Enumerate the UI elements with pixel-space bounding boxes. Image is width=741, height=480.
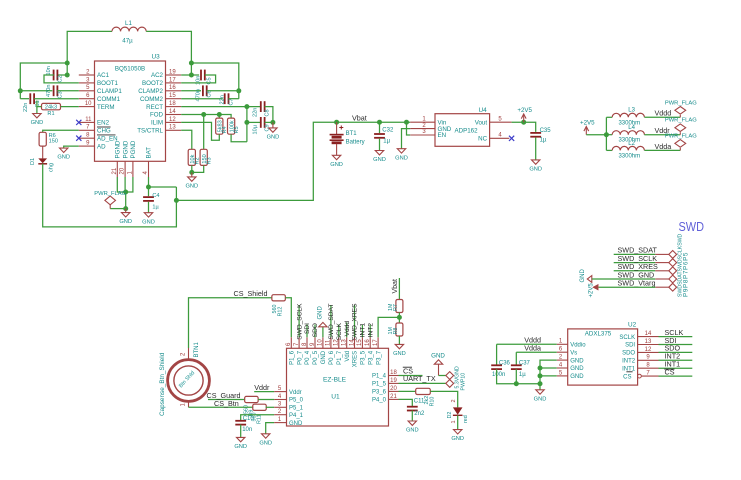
svg-text:470n: 470n: [196, 89, 202, 101]
svg-text:P1_5: P1_5: [372, 382, 387, 388]
wire UART_TX: [399, 382, 446, 384]
ground U4: [397, 149, 405, 154]
wire C6 to AC2 net: [207, 90, 239, 92]
junction Vout: [521, 120, 526, 125]
svg-text:R11: R11: [257, 415, 263, 425]
svg-text:GND: GND: [393, 351, 406, 357]
svg-text:COMM2: COMM2: [140, 96, 164, 103]
PWR_FLAG flag Vddd: [675, 107, 686, 118]
svg-text:C32: C32: [382, 128, 394, 134]
wire PWR_FLAG to gnd: [110, 208, 126, 210]
svg-text:U4: U4: [479, 107, 488, 114]
svg-text:EN: EN: [438, 132, 447, 139]
svg-text:Vs: Vs: [570, 350, 577, 356]
wire Vbat to C32: [379, 122, 381, 133]
U1 pin 6 P1_6: [290, 337, 292, 348]
svg-text:C10: C10: [243, 416, 255, 422]
ground R2 R3: [188, 172, 196, 181]
U1 pin 15 P3_5: [361, 337, 363, 348]
svg-text:P4_0: P4_0: [372, 398, 387, 404]
svg-text:CS_Shield: CS_Shield: [234, 289, 268, 298]
svg-text:SWD: SWD: [679, 219, 705, 234]
svg-text:18: 18: [390, 370, 397, 376]
svg-text:1µ: 1µ: [383, 139, 390, 145]
svg-text:C3: C3: [58, 91, 64, 98]
svg-text:GND: GND: [451, 436, 464, 442]
U4 pin 4 NC: [490, 137, 510, 139]
svg-text:1: 1: [451, 420, 457, 423]
wire CS net: [659, 375, 693, 377]
svg-text:3300hm: 3300hm: [618, 153, 640, 159]
junction rails: [604, 132, 609, 137]
svg-text:16: 16: [169, 85, 176, 91]
wire SWD_SCLK: [298, 305, 300, 337]
wire Vddd: [346, 323, 348, 338]
resistor R5: [228, 118, 235, 134]
BTN1 pin 2: [188, 348, 190, 360]
svg-text:C7: C7: [229, 98, 235, 105]
svg-text:GND: GND: [431, 353, 445, 360]
U3 pin 16 CLAMP2: [166, 90, 182, 92]
svg-text:L3: L3: [628, 108, 635, 114]
capacitor C35: [530, 133, 541, 137]
svg-text:U3: U3: [152, 54, 161, 61]
svg-text:12: 12: [645, 347, 652, 353]
svg-text:Vdda: Vdda: [524, 344, 541, 353]
svg-text:17: 17: [373, 339, 379, 346]
svg-text:2: 2: [451, 399, 457, 402]
svg-text:XRES: XRES: [353, 351, 359, 367]
testpoint P6 SWD_GND: [669, 275, 677, 283]
wire C7 to AC2 net: [229, 98, 239, 100]
wire RECT rail: [181, 106, 261, 108]
wire to C3: [20, 90, 52, 92]
junction PGND: [123, 190, 128, 195]
svg-text:UART_TX: UART_TX: [403, 374, 436, 383]
svg-text:C37: C37: [519, 361, 531, 367]
wire C2 to BOOT1: [44, 75, 79, 83]
svg-text:13: 13: [169, 125, 176, 131]
svg-text:TS/CTRL: TS/CTRL: [137, 128, 163, 135]
wire Vbat rail: [337, 121, 411, 123]
svg-text:BT1: BT1: [346, 131, 358, 137]
wire L1 to AC2: [146, 31, 191, 75]
svg-text:P1_6: P1_6: [290, 350, 296, 365]
ground above U1 pin 10: [319, 322, 327, 326]
wire R9 to P5_0: [258, 399, 274, 401]
testpoint pin SWD_SCLK: [655, 262, 669, 264]
svg-text:Vddr: Vddr: [254, 383, 270, 392]
wire PGND bus: [117, 177, 133, 192]
svg-text:BAT: BAT: [146, 147, 153, 159]
svg-text:BOOT1: BOOT1: [97, 80, 119, 87]
svg-text:GND: GND: [580, 269, 586, 283]
U1 pin 8 P0_4: [306, 337, 308, 348]
wire INT1: [361, 325, 363, 338]
testpoint pin SWD_SDAT: [655, 253, 669, 255]
wire R12 to P1_6: [285, 298, 291, 338]
svg-text:+2V5: +2V5: [517, 107, 532, 114]
wire CS_Shield: [189, 298, 273, 348]
wire P4_1 to C10: [241, 415, 275, 421]
testpoint pin SWD_XRES: [655, 270, 669, 272]
svg-text:Vddio: Vddio: [570, 343, 586, 349]
wire C35 to gnd: [535, 138, 537, 160]
U1 pin 3 P5_1: [274, 406, 286, 408]
U3 pin 13 TS/CTRL: [166, 129, 182, 131]
wire Vdda to C37: [515, 352, 517, 365]
svg-text:SWD_XRES: SWD_XRES: [352, 303, 359, 341]
capacitor C1: [30, 93, 34, 104]
wire SWD_XRES: [354, 305, 356, 337]
junction divider: [397, 315, 402, 320]
wire SCLK net: [659, 336, 693, 338]
U3 pin 8 AD_EN: [79, 137, 95, 139]
wire SWD_GND: [592, 278, 655, 280]
U1 pin 2 P4_1: [274, 414, 286, 416]
svg-text:20: 20: [120, 167, 126, 174]
wire AC2 branch right: [191, 63, 238, 99]
svg-text:R12: R12: [278, 307, 284, 317]
U1 pin 17 P3_7: [377, 337, 379, 348]
U2 pin 7 CS: [641, 375, 658, 377]
wire BAT to right: [149, 186, 177, 188]
svg-text:1µ: 1µ: [519, 372, 526, 378]
svg-text:GND: GND: [57, 155, 70, 161]
no-connect pin 8 AD_EN: [76, 136, 81, 141]
wire PGND pin20: [124, 177, 126, 192]
ground divider: [395, 344, 403, 349]
svg-text:Vout: Vout: [475, 119, 488, 126]
wire FOD to R3: [203, 115, 205, 150]
wire Vbat to R7: [398, 278, 400, 300]
resistor R8: [396, 323, 403, 336]
svg-text:16: 16: [365, 339, 371, 346]
ground C35: [532, 160, 540, 165]
svg-text:10: 10: [318, 339, 324, 346]
svg-text:P1_7: P1_7: [337, 350, 343, 365]
svg-text:GND: GND: [31, 120, 44, 126]
svg-text:AC1: AC1: [97, 72, 110, 79]
svg-text:GND: GND: [289, 421, 303, 427]
IC U4 ADP162 body: [435, 114, 490, 147]
wire C3 to CLAMP1: [57, 90, 79, 92]
svg-text:GND: GND: [234, 444, 247, 450]
capacitor C3: [54, 85, 58, 96]
U1 pin 11 P0_6: [330, 337, 332, 348]
+2V5 power input: [584, 127, 589, 135]
svg-text:INT2: INT2: [622, 359, 636, 365]
svg-text:AC2: AC2: [151, 72, 164, 79]
wire gnd testpoint: [439, 375, 446, 377]
wire SWD_SDAT: [330, 305, 332, 337]
junction C8 C9 gnd: [270, 120, 275, 125]
U3 pin 12 ILIM: [166, 121, 182, 123]
svg-text:D2: D2: [447, 412, 453, 419]
ground under AD: [60, 148, 68, 153]
wire C1 to COMM1: [34, 98, 79, 100]
svg-text:10n: 10n: [46, 66, 52, 75]
wire Vout rail: [512, 122, 536, 132]
testpoint P5 SWD_Vtarg: [669, 283, 677, 291]
wire INT2: [369, 325, 371, 338]
svg-text:INT2: INT2: [367, 323, 374, 338]
svg-text:10: 10: [85, 101, 92, 107]
junction battery: [334, 120, 339, 125]
svg-text:TERM: TERM: [97, 104, 115, 111]
wire to L3: [606, 116, 612, 118]
svg-text:RECT: RECT: [146, 104, 163, 111]
svg-text:14: 14: [169, 109, 176, 115]
wire R1 left: [37, 106, 42, 108]
wire C32 to gnd: [379, 139, 381, 151]
wire SCLK: [338, 325, 340, 338]
no-connect U4 NC: [509, 136, 514, 141]
U3 pin 15 COMM2: [166, 98, 182, 100]
svg-text:PWR_FLAG: PWR_FLAG: [665, 117, 697, 123]
svg-text:12: 12: [169, 117, 176, 123]
U4 pin 3 EN: [410, 134, 435, 136]
resistor R10: [416, 388, 431, 394]
svg-text:SDI: SDI: [625, 343, 635, 349]
svg-text:GND: GND: [406, 428, 419, 434]
+2V5 power at Vout: [521, 114, 526, 122]
wire SWD_SCLK: [614, 262, 656, 264]
capacitor C32: [374, 134, 385, 138]
svg-text:SDI: SDI: [304, 323, 311, 334]
svg-text:Vbat: Vbat: [392, 279, 399, 293]
junction C37 gnd: [514, 381, 519, 386]
svg-text:ILIM: ILIM: [151, 120, 163, 127]
svg-text:GND: GND: [570, 366, 584, 372]
svg-text:470n: 470n: [46, 85, 52, 97]
U3 pin 14 FOD: [166, 114, 182, 116]
inductor L4: [612, 131, 644, 135]
inversion bubble U2 CS: [638, 374, 642, 378]
resistor R4: [216, 118, 223, 134]
wire R7 to R8: [398, 313, 400, 324]
svg-text:P3_6: P3_6: [372, 390, 387, 396]
wire CS stub: [399, 375, 423, 377]
U1 pin 1 GND: [274, 422, 286, 424]
ground under R1: [33, 113, 41, 118]
svg-text:17: 17: [169, 77, 176, 83]
wire SWD_SDAT: [614, 253, 656, 255]
capacitor C9: [261, 117, 265, 128]
ground U2: [536, 390, 544, 395]
svg-text:CLAMP2: CLAMP2: [138, 88, 163, 95]
U2 pin 8 INT1: [638, 367, 659, 369]
junction C32: [377, 120, 382, 125]
svg-text:CS: CS: [623, 374, 631, 380]
ground under C4: [144, 213, 152, 218]
wire +2V5 feed: [586, 134, 606, 136]
wire BAT down: [148, 177, 150, 196]
testpoint P8 SWD_SCLK: [669, 259, 677, 267]
U1 pin 19 P1_5: [389, 382, 399, 384]
U1 pin 13 Vdd: [346, 337, 348, 348]
no-connect pin 11 EN2: [76, 120, 81, 125]
svg-text:2n2: 2n2: [414, 411, 425, 417]
capacitor C2: [54, 70, 58, 81]
svg-text:ADXL375: ADXL375: [585, 331, 612, 338]
svg-text:P5_1: P5_1: [289, 406, 304, 412]
svg-text:+2V5: +2V5: [589, 283, 595, 298]
wire R3 bottom: [192, 165, 204, 172]
U2 pin 14 SCLK: [638, 336, 659, 338]
svg-text:EN2: EN2: [97, 120, 110, 127]
svg-text:COMM1: COMM1: [97, 96, 121, 103]
ground C8 C9: [269, 122, 277, 132]
U1 pin 14 XRES: [354, 337, 356, 348]
U1 pin 20 P3_6: [389, 390, 399, 392]
svg-text:U1: U1: [331, 394, 340, 401]
wire SDI: [306, 325, 308, 338]
svg-text:Vddd: Vddd: [344, 321, 351, 337]
U3 pin 19 AC2: [166, 74, 182, 76]
svg-text:Vdda: Vdda: [655, 142, 672, 151]
PWR_FLAG flag Vddr: [675, 124, 686, 135]
wire ILIM to R4: [181, 122, 219, 140]
svg-text:U2: U2: [628, 321, 637, 328]
svg-text:GND: GND: [570, 358, 584, 364]
svg-text:18: 18: [169, 101, 176, 107]
junction C6 right: [236, 88, 241, 93]
U1 pin 10 GND: [322, 337, 324, 348]
U3 pin 3 BOOT1: [79, 82, 95, 84]
ground U1: [262, 434, 270, 439]
svg-text:R1: R1: [47, 111, 54, 117]
svg-text:EZ-BLE: EZ-BLE: [323, 377, 347, 384]
inductor L3: [612, 113, 644, 117]
junction C3 left: [18, 88, 23, 93]
wire pin10 gnd: [322, 327, 324, 338]
svg-text:P4_1: P4_1: [289, 413, 304, 419]
wire SDI net: [659, 344, 693, 346]
svg-text:C2: C2: [58, 75, 64, 82]
wire Vddd net: [644, 116, 680, 118]
svg-text:Vddd: Vddd: [655, 109, 672, 118]
svg-text:P1_4: P1_4: [372, 374, 387, 380]
svg-text:P0_7: P0_7: [297, 350, 303, 365]
junction C9 left: [244, 120, 249, 125]
svg-text:22n: 22n: [23, 103, 29, 112]
junction BAT: [146, 185, 151, 190]
svg-text:P0_5: P0_5: [313, 350, 319, 365]
U2 pin 4 GND: [557, 367, 568, 369]
svg-text:C11: C11: [414, 399, 425, 405]
junction AC2 top: [189, 61, 194, 66]
svg-text:GND: GND: [259, 440, 272, 446]
wire D2 to gnd: [457, 415, 459, 429]
svg-text:CHG: CHG: [97, 128, 111, 135]
svg-text:21: 21: [112, 167, 118, 174]
ground PGND: [122, 209, 130, 217]
junction BAT riser: [174, 198, 179, 203]
wire BAT to Vbat: [176, 122, 336, 200]
resistor R11: [253, 404, 267, 410]
wire R5 to RECT net: [231, 134, 247, 142]
wire caps gnd rail: [497, 369, 540, 384]
svg-text:PGND: PGND: [130, 140, 137, 158]
svg-text:C8: C8: [265, 109, 271, 116]
wire pin16 to C6: [181, 90, 201, 92]
capacitor C11: [407, 407, 418, 411]
capacitor C4: [143, 197, 154, 201]
wire Vdda net: [644, 149, 680, 151]
capacitor C6: [203, 85, 207, 96]
wire R11 to P5_1: [266, 406, 275, 408]
IC U2 ADXL375 body: [568, 329, 638, 385]
resistor R2: [188, 149, 195, 165]
svg-text:BOOT2: BOOT2: [142, 80, 164, 87]
svg-text:20: 20: [390, 386, 397, 392]
diode D2 red LED: [453, 407, 463, 415]
svg-text:P3_5: P3_5: [361, 350, 367, 365]
U2 pin 2 GND: [557, 359, 568, 361]
svg-text:Vbat: Vbat: [352, 114, 367, 123]
junction AC1 top: [65, 61, 70, 66]
junction U2 gnd4: [538, 366, 543, 371]
wire SWD_Vtarg: [599, 286, 656, 288]
svg-text:Capsense_Btn_Shield: Capsense_Btn_Shield: [159, 352, 166, 416]
svg-text:11: 11: [85, 117, 92, 123]
svg-text:NC: NC: [478, 136, 487, 143]
capacitor C5: [201, 70, 205, 81]
wire INT1 net: [659, 367, 693, 369]
wire P4_0 to C11: [399, 399, 413, 406]
battery BT1: [330, 122, 344, 155]
wire C9 right: [265, 121, 273, 123]
junction AC1 pin2: [65, 73, 70, 78]
ground D2: [454, 430, 462, 435]
wire U2 gnd pin5: [540, 375, 557, 377]
svg-text:SWD_SDAT: SWD_SDAT: [328, 304, 335, 340]
svg-text:Vddr: Vddr: [289, 390, 302, 396]
wire C11 to gnd: [411, 411, 413, 421]
U3 pin 20 PGND: [124, 161, 126, 177]
svg-text:P3_4: P3_4: [368, 350, 374, 365]
resistor R1: [42, 103, 61, 109]
wire C37 to rail: [515, 369, 517, 384]
svg-text:L4: L4: [628, 125, 635, 131]
U1 pin 5 Vddr: [274, 391, 286, 393]
svg-text:GND: GND: [570, 374, 584, 380]
wire EN to Vin: [407, 122, 411, 135]
svg-text:GND: GND: [373, 157, 386, 163]
junction U2 gnd5: [538, 373, 543, 378]
U2 pin 9 INT2: [638, 359, 659, 361]
wire C8 right down: [265, 107, 273, 123]
svg-text:SWD_SCLK: SWD_SCLK: [296, 303, 303, 340]
svg-text:19: 19: [169, 69, 176, 75]
U4 pin 2 GND: [410, 128, 435, 130]
svg-text:13: 13: [645, 339, 652, 345]
svg-text:SDO: SDO: [622, 351, 635, 357]
ground C11: [408, 421, 416, 426]
U1 pin 21 P4_0: [389, 398, 399, 400]
BTN1 pin 1: [188, 402, 190, 408]
svg-text:GND: GND: [395, 155, 408, 161]
svg-text:GND: GND: [142, 219, 155, 225]
svg-text:PGND: PGND: [122, 140, 129, 158]
svg-text:P0_4: P0_4: [305, 350, 311, 365]
svg-text:22n: 22n: [219, 95, 225, 104]
IC U3 BQ51050B body: [95, 61, 166, 161]
svg-text:L2: L2: [628, 141, 635, 147]
wire P3_6 to R10: [399, 390, 416, 392]
wire to C1: [20, 98, 29, 100]
